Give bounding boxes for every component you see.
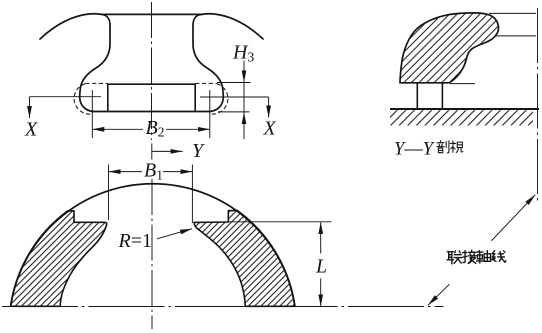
svg-text:X: X: [24, 119, 38, 141]
svg-text:B2: B2: [146, 117, 165, 140]
svg-text:L: L: [315, 256, 327, 278]
svg-text:B1: B1: [144, 160, 163, 183]
svg-text:H3: H3: [232, 42, 254, 65]
svg-text:R=1: R=1: [118, 230, 153, 252]
svg-text:Y—Y: Y—Y: [394, 140, 435, 160]
svg-text:Y: Y: [192, 140, 205, 162]
svg-text:X: X: [263, 118, 277, 140]
